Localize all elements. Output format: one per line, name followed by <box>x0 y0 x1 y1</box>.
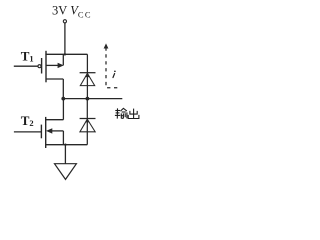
label output (Chinese) <box>115 108 139 118</box>
transistor T2 (NMOS) <box>14 117 87 148</box>
svg-text:3V VCC: 3V VCC <box>52 4 92 20</box>
dashed current arrow i <box>104 43 119 87</box>
wire Vcc vertical <box>64 23 66 54</box>
ground <box>55 164 77 180</box>
power terminal circle <box>63 20 66 23</box>
wire T1 drain to output node <box>62 79 64 99</box>
label i <box>112 70 115 78</box>
junction dot output left <box>61 97 65 101</box>
svg-text:T2: T2 <box>21 113 34 128</box>
transistor T1 (PMOS) <box>14 51 64 83</box>
junction Vcc tap <box>64 53 66 55</box>
wire T2 drain to output node <box>62 99 64 120</box>
junction dot output right <box>86 97 90 101</box>
diode D1 <box>80 54 96 98</box>
diode D2 <box>80 99 96 145</box>
svg-text:T1: T1 <box>21 48 34 63</box>
wire Vcc top rail <box>45 53 87 55</box>
wire ground lead <box>64 145 66 164</box>
junction ground tap <box>64 144 66 146</box>
wire output rail <box>63 98 122 100</box>
